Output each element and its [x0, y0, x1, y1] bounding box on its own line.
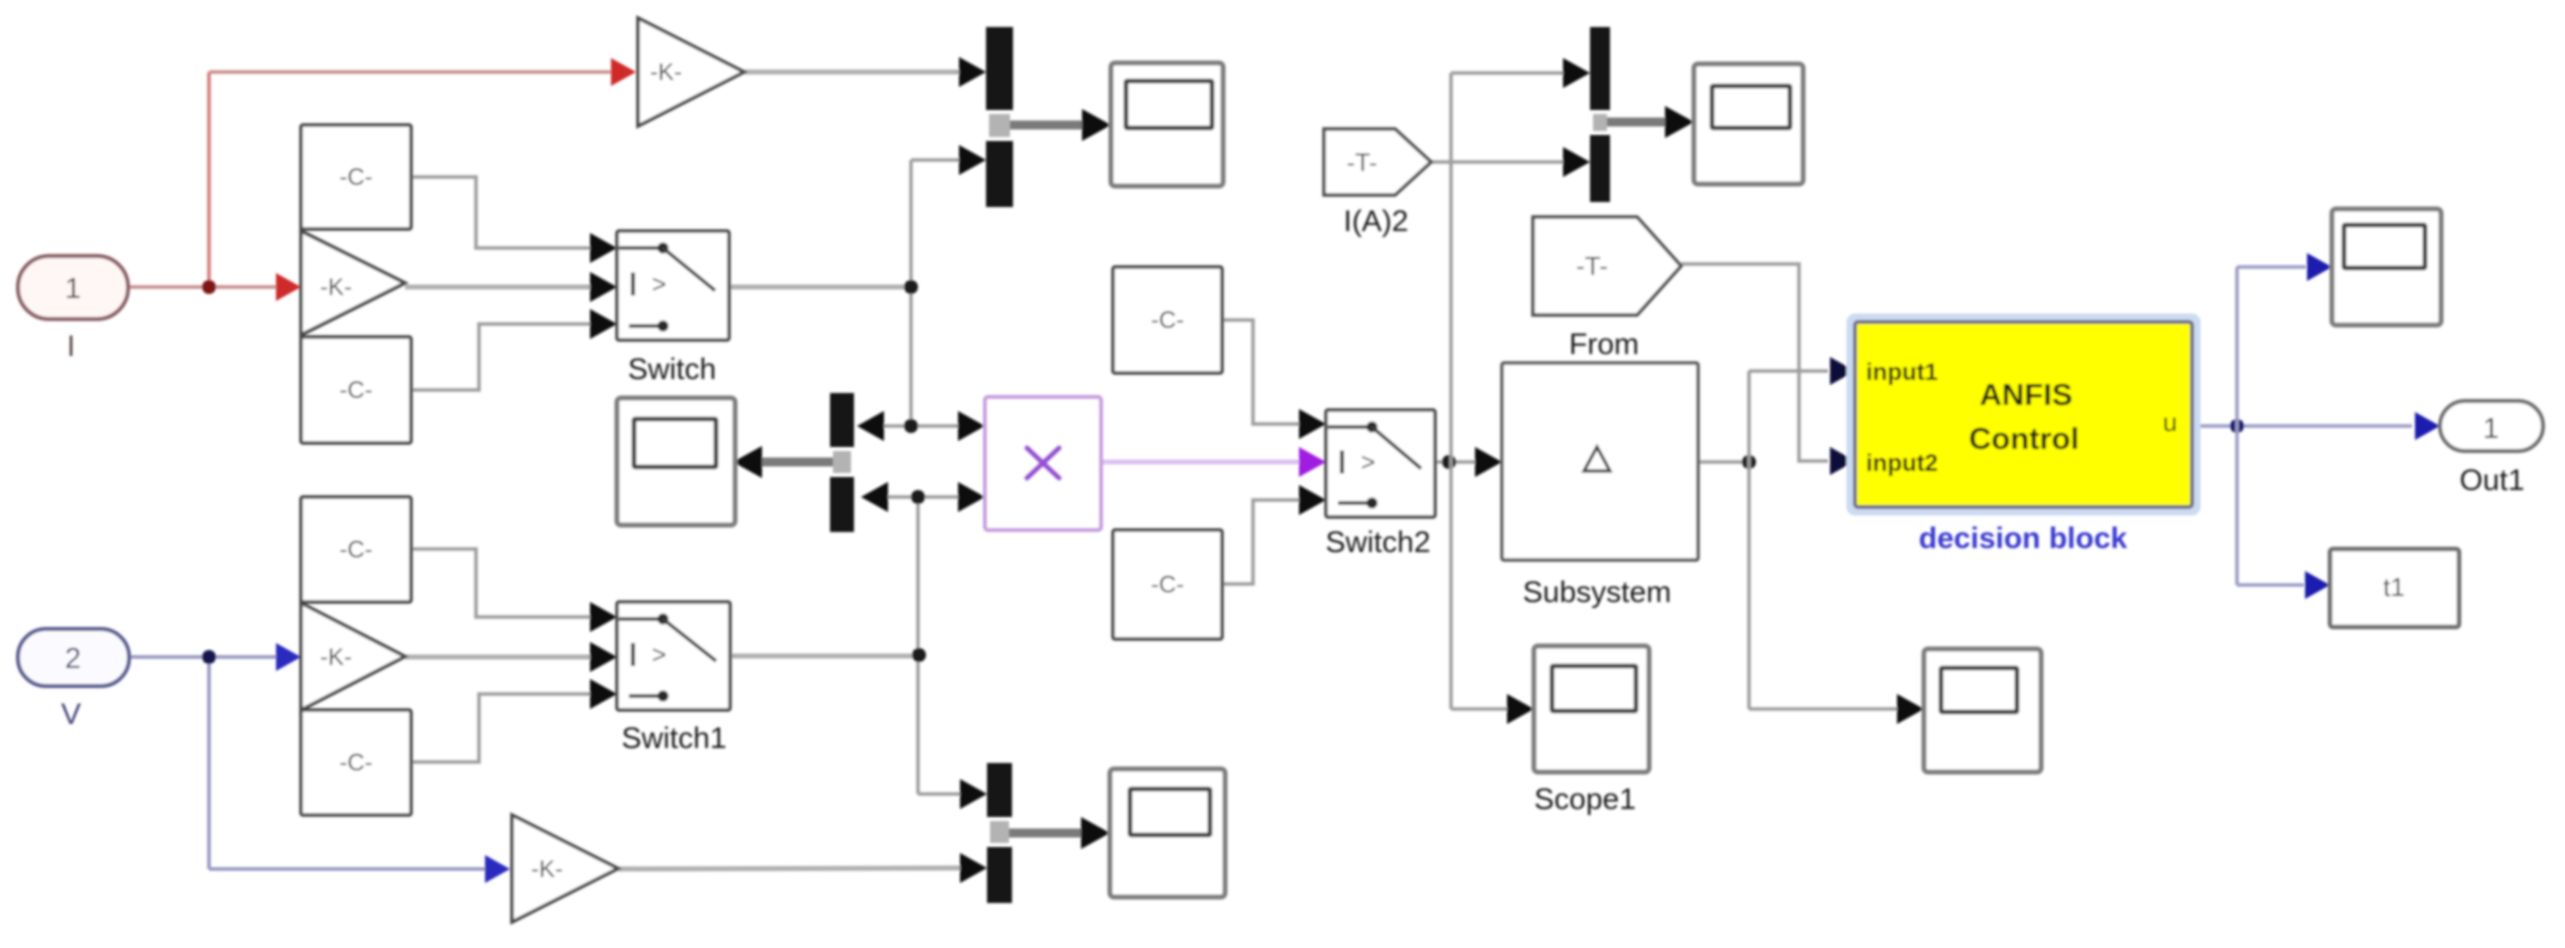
svg-text:input1: input1 [1866, 359, 1938, 386]
wire bus D vertical [1747, 371, 1751, 709]
wire Switch2 output [1435, 460, 1478, 464]
svg-text:-T-: -T- [1576, 251, 1608, 281]
svg-text:-T-: -T- [1347, 149, 1378, 177]
mux Mux5 [1590, 27, 1610, 202]
junction Switch1 out on bus B [912, 648, 926, 662]
arrowhead Scope4 input [1081, 817, 1110, 849]
gain K2 (top) [638, 18, 744, 126]
svg-text:-C-: -C- [339, 377, 372, 404]
wire C4 to Switch1 in3 [411, 694, 594, 762]
wire bus B vertical [916, 497, 920, 794]
constant C4 [301, 710, 411, 815]
scope Scope6 [1924, 649, 2041, 772]
scope ScopeL [617, 398, 735, 525]
arrowhead Switch1 in3 [590, 679, 617, 709]
arrowhead ANFIS input2 [1830, 447, 1855, 475]
svg-text:Switch: Switch [628, 353, 716, 386]
constant C2 [301, 337, 411, 443]
svg-text:u: u [2163, 407, 2177, 437]
arrowhead Mux4 in1 [960, 779, 987, 809]
svg-text:decision block: decision block [1919, 522, 2128, 555]
constant C6 [1113, 530, 1222, 639]
arrowhead Subsystem input [1475, 447, 1502, 477]
junction Switch2 out [1442, 455, 1456, 469]
switch Switch [617, 231, 729, 340]
constant C5 [1113, 267, 1222, 373]
arrowhead Mux3 in2 (leftward) [861, 482, 888, 512]
constant C1 [301, 125, 411, 229]
arrowhead Switch1 in1 [590, 602, 617, 632]
junction input1 branch [202, 280, 216, 294]
input port 2 (V) [18, 629, 129, 686]
svg-text:Switch2: Switch2 [1325, 526, 1430, 559]
arrowhead Switch2 in3 [1299, 485, 1326, 515]
svg-text:1: 1 [65, 273, 81, 305]
arrowhead into gain K3 [276, 643, 301, 671]
wire u to t1 [2237, 583, 2304, 587]
svg-text:input2: input2 [1866, 450, 1938, 477]
arrowhead Product in1 [958, 411, 985, 441]
junction u branch [2230, 419, 2244, 433]
arrowhead Scope6 input [1897, 694, 1924, 724]
arrowhead ScopeL input (leftward) [733, 446, 762, 478]
subsystem block [1502, 363, 1698, 560]
wire C6 to Switch2 in3 [1222, 500, 1300, 584]
arrowhead into gain K1 [276, 273, 301, 301]
switch Switch1 [617, 602, 730, 710]
svg-text:-K-: -K- [320, 274, 352, 301]
mux Mux4 [987, 763, 1012, 903]
arrowhead Switch1 in2 [590, 642, 617, 672]
arrowhead Switch in2 [590, 272, 617, 302]
wire C1 to Switch in1 [411, 177, 594, 248]
wire input1 horizontal [125, 285, 280, 289]
gain K1 [301, 231, 405, 335]
wire bus A to Mux1 in2 [911, 158, 962, 162]
svg-text:Scope1: Scope1 [1534, 783, 1636, 816]
junction row y497 [911, 490, 925, 504]
svg-text:-K-: -K- [320, 644, 352, 671]
scope Scope3 [1694, 64, 1803, 184]
wire gain K3 to Switch1 in2 [405, 655, 592, 660]
scope Scope1 [1534, 646, 1649, 772]
svg-text:-C-: -C- [339, 164, 372, 191]
junction Switch out on bus A [904, 280, 918, 294]
wire Mux3 output (leftward) [759, 458, 846, 467]
from tag I(A)2 [1324, 129, 1431, 195]
scope Scope2 [1111, 63, 1223, 186]
junction row y426 [904, 419, 918, 433]
scope Scope5 [2332, 209, 2441, 325]
arrowhead Mux5 in1 [1563, 58, 1590, 88]
arrowhead into gain K4 [485, 855, 510, 883]
arrowhead Scope2 input [1082, 109, 1111, 141]
wire bus C vertical [1449, 73, 1453, 709]
arrowhead Switch2 in2 [1299, 447, 1326, 477]
wire From tag to input2 [1681, 264, 1828, 461]
wire From I(A)2 to Mux5 in2 [1431, 160, 1566, 164]
wire u output [2194, 424, 2412, 428]
switch Switch2 [1326, 410, 1435, 517]
arrowhead Switch in3 [590, 309, 617, 339]
wire Switch1 output [730, 654, 919, 659]
arrowhead Switch in1 [590, 233, 617, 263]
wire input1 to top gain [209, 70, 616, 74]
wire bus C to Scope1 [1451, 707, 1508, 711]
input port 1 (I) [18, 256, 128, 319]
wire gain K2 to Mux1 in1 [744, 70, 962, 75]
svg-text:>: > [652, 641, 667, 669]
wire bus D to input1 [1749, 369, 1828, 373]
arrowhead Out1 [2415, 412, 2440, 440]
arrowhead Mux1 in2 [959, 145, 986, 175]
svg-text:-C-: -C- [1151, 572, 1184, 599]
wire u vertical branch [2235, 267, 2239, 585]
svg-text:ANFIS: ANFIS [1980, 377, 2073, 412]
output port Out1 [2440, 401, 2543, 451]
svg-text:-C-: -C- [1151, 307, 1184, 334]
svg-text:Switch1: Switch1 [621, 722, 726, 755]
arrowhead t1 input [2305, 571, 2330, 599]
wire bus A vertical [909, 160, 913, 426]
arrowhead into gain K2 [611, 58, 636, 86]
wire node row y497 [864, 495, 961, 499]
svg-text:Out1: Out1 [2459, 464, 2524, 497]
arrowhead Scope1 input [1507, 694, 1534, 724]
wire input2 to bottom gain [209, 867, 490, 871]
wire gain K4 to Mux4 in2 [618, 868, 963, 869]
wire C5 to Switch2 in1 [1222, 320, 1300, 424]
wire u to Scope5 [2237, 265, 2306, 269]
wire C2 to Switch in3 [411, 324, 594, 390]
arrowhead Mux3 in1 (leftward) [857, 411, 884, 441]
arrowhead Scope3 input [1665, 106, 1694, 138]
arrowhead ANFIS input1 [1830, 357, 1855, 385]
arrowhead Switch2 in1 [1299, 409, 1326, 439]
arrowhead Product in2 [958, 482, 985, 512]
arrowhead Mux5 in2 [1563, 147, 1590, 177]
mux Mux3 (mirrored) [830, 393, 854, 532]
wire bus B to Mux4 in1 [918, 792, 963, 796]
svg-text:-K-: -K- [650, 59, 682, 86]
gain K4 (bottom) [512, 815, 618, 922]
arrowhead Mux4 in2 [960, 853, 987, 883]
mux Mux1 [986, 27, 1013, 207]
svg-text:V: V [61, 698, 81, 731]
wire bus C to Mux5 in1 [1451, 71, 1566, 75]
svg-text:Subsystem: Subsystem [1523, 576, 1671, 609]
svg-text:-K-: -K- [531, 856, 563, 883]
wire input1 vertical riser [207, 72, 211, 287]
constant C3 [301, 497, 411, 602]
junction input2 branch [202, 650, 216, 664]
wire Switch output [729, 285, 911, 290]
scope Scope4 [1110, 769, 1225, 897]
arrowhead Scope5 input [2307, 253, 2332, 281]
wire Mux4 output [992, 829, 1084, 838]
svg-text:I: I [67, 330, 75, 363]
svg-text:Control: Control [1969, 421, 2079, 456]
junction Subsystem out [1742, 455, 1756, 469]
wire Product output [1101, 460, 1300, 465]
svg-text:>: > [1361, 449, 1376, 477]
svg-text:-C-: -C- [339, 750, 372, 777]
wire input2 horizontal [126, 655, 280, 659]
arrowhead Mux1 in1 [959, 57, 986, 87]
wire node row y426 [860, 424, 961, 428]
ANFIS decision block [1851, 318, 2196, 511]
wire C3 to Switch1 in1 [411, 549, 594, 617]
svg-text:1: 1 [2483, 413, 2499, 445]
wire Subsystem output [1695, 460, 1749, 464]
gain K3 [301, 603, 405, 710]
wire Mux1 output [992, 121, 1085, 130]
svg-text:>: > [652, 271, 667, 299]
wire gain K1 to Switch in2 [405, 285, 592, 290]
svg-text:From: From [1569, 328, 1639, 361]
wire bus D to Scope6 [1749, 707, 1898, 711]
product block (X) [985, 397, 1101, 530]
svg-text:I(A)2: I(A)2 [1343, 205, 1408, 238]
wire input2 vertical dropper [207, 657, 211, 869]
from tag From [1533, 217, 1681, 315]
wire Mux5 output [1596, 118, 1668, 127]
svg-text:-C-: -C- [339, 537, 372, 564]
svg-text:2: 2 [65, 643, 81, 675]
svg-text:t1: t1 [2383, 572, 2405, 602]
to-workspace t1 [2330, 549, 2459, 627]
